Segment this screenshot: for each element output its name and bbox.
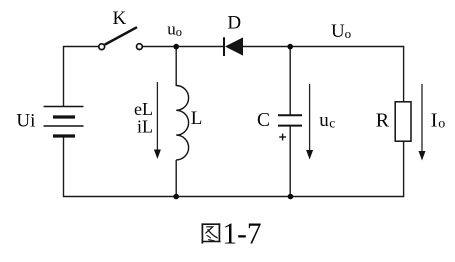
svg-text:o: o: [438, 117, 445, 132]
capacitor plus sign: [279, 134, 286, 141]
switch K: [99, 27, 143, 49]
arrow eL iL: [154, 82, 161, 159]
wire switch to diode cathode bar: [142, 46, 223, 48]
svg-text:I: I: [431, 109, 438, 131]
node uo dot: [173, 44, 179, 50]
svg-text:K: K: [113, 8, 127, 29]
svg-text:U: U: [331, 21, 345, 42]
svg-text:u: u: [319, 110, 329, 131]
inductor L coil: [176, 86, 188, 160]
caption hanzi tu (图) drawn as strokes: [202, 223, 221, 243]
svg-text:C: C: [257, 110, 270, 131]
wire bottom horizontal: [64, 196, 404, 198]
node at inductor bottom: [173, 194, 179, 200]
svg-text:D: D: [227, 13, 241, 34]
wire top-left from battery branch to switch: [64, 46, 100, 48]
wire diode anode to top-right corner: [243, 46, 404, 48]
wire inductor branch upper: [175, 47, 177, 87]
wire left vertical lower (battery to bottom): [63, 136, 65, 197]
svg-text:R: R: [376, 109, 390, 131]
svg-text:c: c: [329, 115, 335, 130]
resistor R: [395, 102, 411, 141]
node at capacitor top: [287, 44, 293, 50]
capacitor C plates: [278, 115, 302, 125]
arrow uc: [306, 84, 313, 160]
svg-text:Ui: Ui: [16, 110, 35, 131]
svg-text:L: L: [191, 108, 203, 129]
wire right vertical lower (resistor to bottom): [403, 141, 405, 197]
arrow Io: [419, 84, 426, 161]
svg-text:1-7: 1-7: [223, 216, 262, 251]
diode D: [224, 37, 243, 56]
svg-text:o: o: [345, 26, 352, 41]
wire capacitor branch lower: [289, 127, 291, 197]
node at capacitor bottom: [288, 194, 294, 200]
svg-text:o: o: [176, 25, 182, 39]
wire left vertical upper (to battery): [63, 46, 65, 107]
wire inductor branch lower: [175, 160, 177, 197]
svg-text:iL: iL: [137, 116, 153, 136]
wire right vertical upper (to resistor R): [403, 46, 405, 102]
battery Ui: [44, 107, 84, 137]
wire capacitor branch upper: [289, 47, 291, 115]
